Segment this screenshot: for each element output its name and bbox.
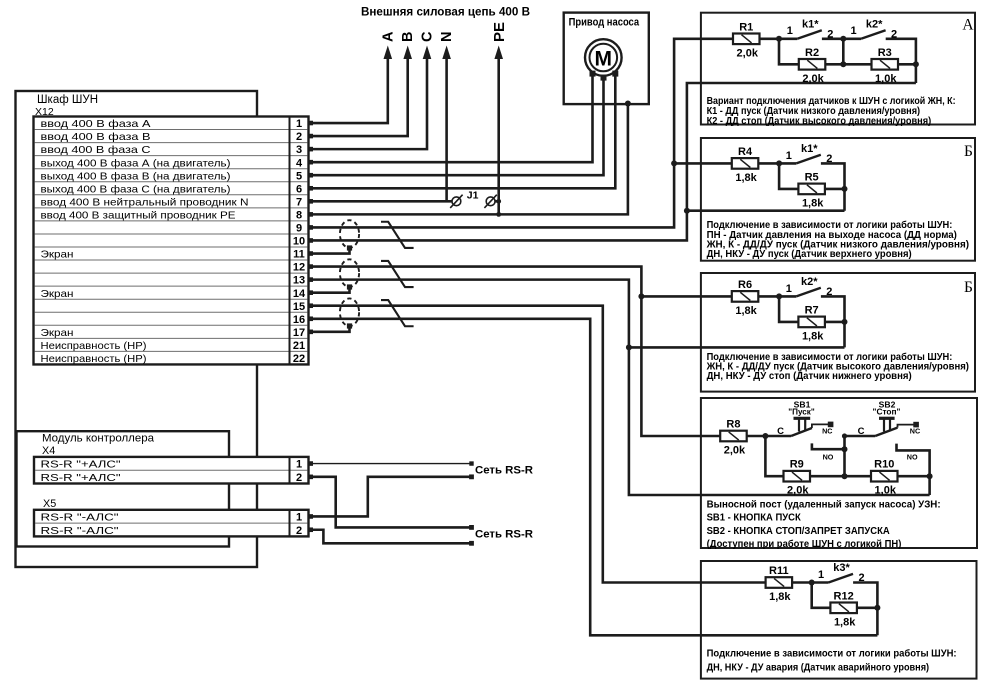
svg-text:13: 13: [293, 275, 305, 287]
wire branch to R7: [779, 296, 798, 322]
wire R1 to k1 node: [760, 37, 798, 40]
svg-text:К2 - ДД стоп (Датчик высокого: К2 - ДД стоп (Датчик высокого давления/у…: [707, 116, 932, 127]
svg-text:Привод насоса: Привод насоса: [569, 17, 640, 29]
svg-text:R2: R2: [805, 47, 819, 59]
svg-text:1: 1: [786, 283, 792, 295]
wire branch to R12: [812, 583, 831, 608]
svg-text:1: 1: [787, 25, 793, 37]
svg-text:ДН, НКУ - ДУ авария (Датчик ав: ДН, НКУ - ДУ авария (Датчик аварийного у…: [707, 663, 930, 674]
svg-text:1,0k: 1,0k: [875, 485, 897, 497]
svg-text:9: 9: [296, 223, 302, 235]
wire k2 terminal 2: [886, 39, 916, 83]
wire k1-2 down to R2/R3 rail: [842, 39, 845, 65]
resistor R5: [798, 184, 825, 195]
RS-R terminal: [469, 474, 474, 479]
motor terminal V: [601, 75, 607, 81]
wire pin12 to R6/R8 input net: [309, 267, 721, 436]
svg-text:1,8k: 1,8k: [769, 591, 791, 603]
svg-text:2: 2: [296, 525, 302, 537]
svg-text:ввод 400 В нейтральный проводн: ввод 400 В нейтральный проводник N: [41, 197, 249, 208]
svg-text:ДН, НКУ - ДУ пуск (Датчик вер: ДН, НКУ - ДУ пуск (Датчик верхнего уровн…: [707, 249, 912, 260]
cabinet box Шкаф ШУН: [16, 91, 258, 567]
svg-text:Внешняя силовая цепь 400 В: Внешняя силовая цепь 400 В: [361, 5, 530, 19]
svg-text:Шкаф ШУН: Шкаф ШУН: [37, 94, 98, 106]
resistor R3: [872, 59, 899, 70]
svg-text:(Доступен при работе ШУН с лог: (Доступен при работе ШУН с логикой ПН): [707, 538, 902, 550]
wire R4 to k1 node: [759, 162, 797, 165]
switch contact k1*: [796, 155, 821, 164]
svg-text:1: 1: [296, 118, 302, 130]
svg-text:ввод 400 В фаза А: ввод 400 В фаза А: [41, 118, 151, 130]
svg-text:выход 400 В фаза С (на двигате: выход 400 В фаза С (на двигатель): [41, 183, 231, 195]
wire branch return Б: [687, 209, 845, 212]
svg-text:R1: R1: [739, 21, 753, 33]
svg-text:"Пуск": "Пуск": [788, 406, 815, 416]
svg-text:k2*: k2*: [801, 276, 818, 288]
wire k1 terminal 2: [821, 163, 845, 210]
cable shield (pins 15/16): [340, 298, 359, 326]
junction node return Б: [684, 208, 690, 214]
wire pin13 to return net boxes 3/4: [309, 280, 930, 495]
wire pin11 shield tail: [309, 248, 350, 254]
svg-text:4: 4: [296, 157, 303, 169]
svg-text:Б: Б: [964, 279, 973, 296]
cable break symbol: [381, 300, 414, 326]
svg-text:В: В: [400, 32, 416, 42]
svg-text:5: 5: [296, 170, 302, 182]
wire R11 to k3 node: [792, 581, 829, 584]
svg-text:1,8k: 1,8k: [735, 305, 757, 317]
junction J1 to PE line: [496, 199, 501, 204]
resistor R2: [799, 59, 826, 70]
svg-text:выход 400 В фаза В (на двигате: выход 400 В фаза В (на двигатель): [41, 170, 231, 182]
wire branch to R6 input: [641, 295, 731, 298]
wire N arrow shaft: [445, 58, 448, 203]
svg-text:Подключение в зависимости от л: Подключение в зависимости от логики рабо…: [707, 648, 957, 660]
wire pin5 to motor terminal V: [309, 78, 604, 175]
svg-text:R11: R11: [769, 565, 789, 577]
wire X5 pin2 to RS-R net: [309, 530, 472, 544]
arrow В (phase): [403, 46, 412, 60]
resistor R10: [871, 471, 898, 482]
wire branch to R5: [779, 163, 798, 189]
wire branch to R2: [779, 39, 799, 65]
svg-text:Экран: Экран: [41, 250, 74, 261]
junction after R11: [809, 580, 815, 586]
svg-text:15: 15: [293, 301, 305, 313]
terminal block X5: [34, 510, 309, 537]
cable shield (pins 12/13): [340, 259, 359, 287]
junction node return box3: [626, 344, 632, 350]
resistor R6: [732, 291, 759, 302]
wire branch return box3: [629, 346, 845, 349]
wire R7 right: [825, 321, 845, 324]
svg-text:Сеть RS-R: Сеть RS-R: [475, 465, 533, 477]
svg-text:PE: PE: [491, 22, 508, 42]
motor M1: [585, 39, 622, 76]
cable shield (pins 9/10): [340, 220, 359, 248]
svg-text:3: 3: [296, 144, 302, 156]
svg-text:1,8k: 1,8k: [834, 616, 856, 628]
terminal nubs X4/X5: [308, 461, 313, 466]
wire pin2 to phase B arrow: [309, 58, 408, 137]
svg-text:Неисправность (НР): Неисправность (НР): [41, 354, 147, 365]
svg-text:21: 21: [293, 340, 305, 352]
svg-text:А: А: [962, 16, 974, 33]
svg-text:J1: J1: [467, 189, 479, 201]
svg-text:k2*: k2*: [866, 18, 883, 30]
svg-text:1,8k: 1,8k: [802, 330, 824, 342]
svg-text:Экран: Экран: [41, 289, 74, 300]
vertical rail SB1: [843, 436, 846, 476]
wire branch to R4 input: [674, 162, 732, 165]
svg-text:Сеть RS-R: Сеть RS-R: [475, 529, 533, 541]
svg-text:NC: NC: [822, 426, 832, 435]
wire R8 to SB1: [747, 435, 792, 438]
svg-text:RS-R "+АЛС": RS-R "+АЛС": [41, 460, 121, 471]
junction R10/rail: [927, 473, 933, 479]
switch contact k2*: [861, 30, 886, 39]
svg-text:11: 11: [293, 249, 305, 261]
cable break symbol: [381, 261, 414, 287]
svg-text:Модуль контроллера: Модуль контроллера: [42, 433, 154, 445]
svg-text:X5: X5: [43, 498, 56, 510]
switch contact k1*: [797, 30, 822, 39]
svg-text:R3: R3: [878, 47, 892, 59]
svg-text:NC: NC: [910, 426, 920, 435]
svg-text:8: 8: [296, 209, 302, 221]
svg-text:7: 7: [296, 196, 302, 208]
motor terminal U: [590, 71, 596, 77]
motor terminal W: [612, 71, 618, 77]
wire pin6 to motor terminal W: [309, 74, 616, 188]
svg-text:22: 22: [293, 353, 305, 365]
wire R6 to k2 node: [759, 295, 797, 298]
junction R2/R3 rail: [840, 61, 846, 67]
svg-text:1,0k: 1,0k: [875, 73, 897, 85]
junction R9/rail: [842, 473, 848, 479]
option box ДУ авария: [701, 561, 977, 679]
svg-text:R6: R6: [738, 279, 752, 291]
svg-text:RS-R "+АЛС": RS-R "+АЛС": [41, 473, 121, 484]
terminal block X12: [34, 117, 309, 365]
wire branch to R9: [765, 436, 783, 476]
wire pin4 to motor terminal U: [309, 74, 593, 162]
svg-text:SB2 - КНОПКА СТОП/ЗАПРЕТ ЗАПУС: SB2 - КНОПКА СТОП/ЗАПРЕТ ЗАПУСКА: [707, 526, 890, 537]
wire X4 pin1 to RS-R net: [309, 463, 472, 465]
svg-text:"Стоп": "Стоп": [873, 406, 901, 416]
svg-text:2,0k: 2,0k: [802, 73, 824, 85]
wire X4 pin2 to RS-R net: [309, 477, 472, 528]
svg-text:X4: X4: [42, 445, 55, 457]
svg-text:12: 12: [293, 262, 305, 274]
svg-text:С: С: [858, 426, 865, 437]
svg-text:ДН, НКУ - ДУ стоп (Датчик ниж: ДН, НКУ - ДУ стоп (Датчик нижнего уровня…: [707, 371, 912, 382]
option box Б (first): [701, 138, 975, 261]
svg-text:2,0k: 2,0k: [724, 445, 746, 457]
svg-text:SB1 - КНОПКА ПУСК: SB1 - КНОПКА ПУСК: [707, 513, 802, 524]
svg-text:1: 1: [296, 512, 302, 524]
shield terminal square: [347, 284, 352, 289]
controller module box Модуль контроллера: [17, 431, 230, 546]
svg-text:6: 6: [296, 183, 302, 195]
svg-text:1: 1: [786, 150, 792, 162]
svg-text:ввод 400 В фаза С: ввод 400 В фаза С: [41, 144, 152, 156]
resistor R4: [732, 158, 759, 169]
svg-text:NO: NO: [907, 452, 918, 461]
resistor R12: [830, 603, 857, 614]
junction after R1: [776, 36, 782, 42]
option box УЗН: [701, 398, 977, 548]
wire R12 right: [857, 606, 877, 609]
resistor R1: [733, 34, 760, 45]
wire k2 terminal 2: [821, 296, 845, 347]
wire k1 terminal 2: [822, 37, 861, 40]
svg-text:16: 16: [293, 314, 305, 326]
svg-text:10: 10: [293, 236, 305, 248]
svg-text:ввод 400 В фаза В: ввод 400 В фаза В: [41, 131, 151, 143]
svg-text:Выносной пост (удаленный запус: Выносной пост (удаленный запуск насоса) …: [707, 499, 941, 510]
wire pin10 to sensor return net: [309, 83, 916, 240]
wire pin15 to R11 input: [309, 306, 766, 583]
svg-text:N: N: [439, 32, 455, 42]
pump drive box Привод насоса: [564, 13, 649, 105]
wire PE arrow shaft: [497, 58, 500, 215]
junction R5/right rail: [842, 186, 848, 192]
wire R5 right: [825, 188, 845, 191]
resistor R7: [798, 317, 825, 328]
arrow PE: [494, 46, 503, 60]
junction after R8: [762, 433, 768, 439]
terminal block X4: [34, 457, 309, 484]
wire pin9 to sensor input net (boxes А/Б): [309, 39, 734, 228]
wire R2 to R3: [825, 63, 871, 66]
resistor R9: [784, 471, 811, 482]
arrow N (phase): [442, 46, 451, 60]
svg-text:R7: R7: [805, 304, 819, 316]
wire R3 right to output rail: [898, 63, 916, 66]
junction k1-2 / R2: [840, 36, 846, 42]
junction R3/output: [913, 61, 919, 67]
junction PE at pump box: [625, 101, 631, 107]
svg-text:А: А: [380, 31, 396, 42]
wire pin3 to phase C arrow: [309, 58, 428, 150]
SB1 NO branch: [812, 443, 845, 449]
svg-text:14: 14: [293, 288, 306, 300]
svg-text:М: М: [595, 47, 613, 70]
junction SB1 NO / rail: [842, 446, 848, 452]
svg-text:2,0k: 2,0k: [787, 485, 809, 497]
svg-text:2: 2: [296, 472, 302, 484]
svg-text:R8: R8: [726, 419, 740, 431]
switch contact k3*: [829, 574, 854, 583]
shield terminal square: [347, 323, 352, 328]
switch contact k2*: [796, 288, 821, 297]
svg-text:Неисправность (НР): Неисправность (НР): [41, 341, 147, 352]
wire pin14 shield tail: [309, 287, 350, 293]
SB2 blade: [875, 428, 897, 436]
svg-text:1: 1: [296, 459, 302, 471]
wire pin17 shield tail: [309, 326, 350, 332]
resistor R11: [766, 577, 793, 588]
RS-R terminal: [469, 461, 473, 465]
junction after R4: [776, 160, 782, 166]
arrow А (phase): [384, 46, 393, 60]
SB1 blade: [791, 428, 812, 436]
svg-text:ввод 400 В защитный проводник: ввод 400 В защитный проводник РЕ: [41, 210, 236, 221]
svg-text:Б: Б: [964, 143, 973, 160]
wire R9 to R10: [810, 475, 871, 478]
wire SB1 out to SB2: [845, 435, 876, 438]
SB1 NC branch: [812, 424, 829, 428]
svg-text:NO: NO: [823, 452, 834, 461]
svg-text:1,8k: 1,8k: [735, 172, 757, 184]
SB2 NO branch: [897, 444, 930, 495]
wire pin7 (N) to jumper J1: [309, 200, 453, 203]
svg-text:R9: R9: [790, 459, 804, 471]
junction PE to pin8 wire: [496, 212, 501, 217]
SB2 NC branch: [898, 425, 915, 428]
svg-text:R5: R5: [805, 171, 819, 183]
wire X5 pin1 to RS-R net: [309, 477, 472, 517]
svg-text:RS-R "-АЛС": RS-R "-АЛС": [41, 526, 119, 537]
wire k3 terminal 2: [853, 583, 877, 636]
svg-text:R10: R10: [874, 459, 894, 471]
svg-text:1: 1: [851, 25, 857, 37]
svg-text:2,0k: 2,0k: [737, 47, 759, 59]
svg-text:k1*: k1*: [802, 18, 819, 30]
wire R10 right: [898, 475, 930, 478]
shield terminal square: [347, 245, 352, 250]
svg-text:выход 400 В фаза А (на двигате: выход 400 В фаза А (на двигатель): [41, 157, 231, 169]
svg-text:k3*: k3*: [833, 562, 850, 574]
cable break symbol: [381, 222, 414, 248]
junction SB1 output rail: [842, 433, 847, 438]
option box Б (second): [701, 273, 975, 392]
resistor R8: [720, 431, 747, 442]
option box А: [701, 13, 975, 125]
jumper J1: [452, 197, 461, 206]
junction node input Б: [671, 160, 677, 166]
terminal nubs X12: [308, 121, 313, 126]
svg-text:С: С: [420, 31, 436, 42]
RS-R terminal: [469, 525, 474, 530]
RS-R terminal: [469, 541, 474, 546]
junction R7/right rail: [842, 319, 848, 325]
wire pin8 (PE) to motor box: [309, 104, 628, 214]
svg-text:k1*: k1*: [801, 143, 818, 155]
svg-text:1: 1: [818, 569, 824, 581]
svg-text:Экран: Экран: [41, 328, 74, 339]
svg-text:С: С: [777, 426, 784, 437]
junction after R6: [776, 293, 782, 299]
svg-text:RS-R "-АЛС": RS-R "-АЛС": [41, 513, 119, 524]
svg-text:R12: R12: [834, 590, 854, 602]
svg-text:2: 2: [296, 131, 302, 143]
svg-text:1,8k: 1,8k: [802, 197, 824, 209]
junction node input box3: [638, 293, 644, 299]
svg-text:R4: R4: [738, 146, 753, 158]
wire pin16 to box5 return: [309, 319, 878, 636]
junction R12/right rail: [874, 605, 880, 611]
svg-text:17: 17: [293, 327, 305, 339]
arrow С (phase): [423, 46, 432, 60]
wire pin1 to phase A arrow: [309, 58, 388, 124]
